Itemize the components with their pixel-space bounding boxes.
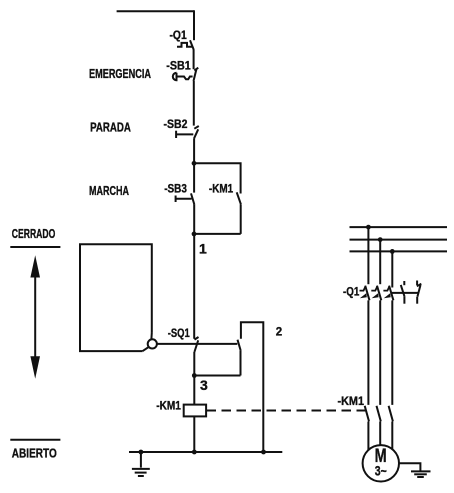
svg-text:-SB2: -SB2 [164, 119, 188, 131]
svg-text:-Q1: -Q1 [170, 30, 188, 42]
svg-text:-SB3: -SB3 [164, 183, 187, 195]
svg-text:EMERGENCIA: EMERGENCIA [89, 66, 151, 81]
svg-text:2: 2 [276, 327, 282, 339]
svg-text:-KM1: -KM1 [156, 401, 181, 413]
svg-text:CERRADO: CERRADO [12, 226, 56, 241]
svg-text:ABIERTO: ABIERTO [12, 446, 57, 461]
svg-text:PARADA: PARADA [90, 119, 131, 134]
svg-text:MARCHA: MARCHA [89, 183, 129, 198]
svg-text:-KM1: -KM1 [338, 396, 365, 408]
svg-text:1: 1 [199, 241, 207, 257]
svg-text:3: 3 [200, 377, 208, 393]
svg-text:-Q1: -Q1 [343, 287, 360, 299]
svg-text:3~: 3~ [375, 464, 387, 479]
svg-text:-SQ1: -SQ1 [168, 328, 190, 340]
svg-text:-KM1: -KM1 [209, 183, 234, 195]
svg-text:-SB1: -SB1 [166, 60, 191, 72]
